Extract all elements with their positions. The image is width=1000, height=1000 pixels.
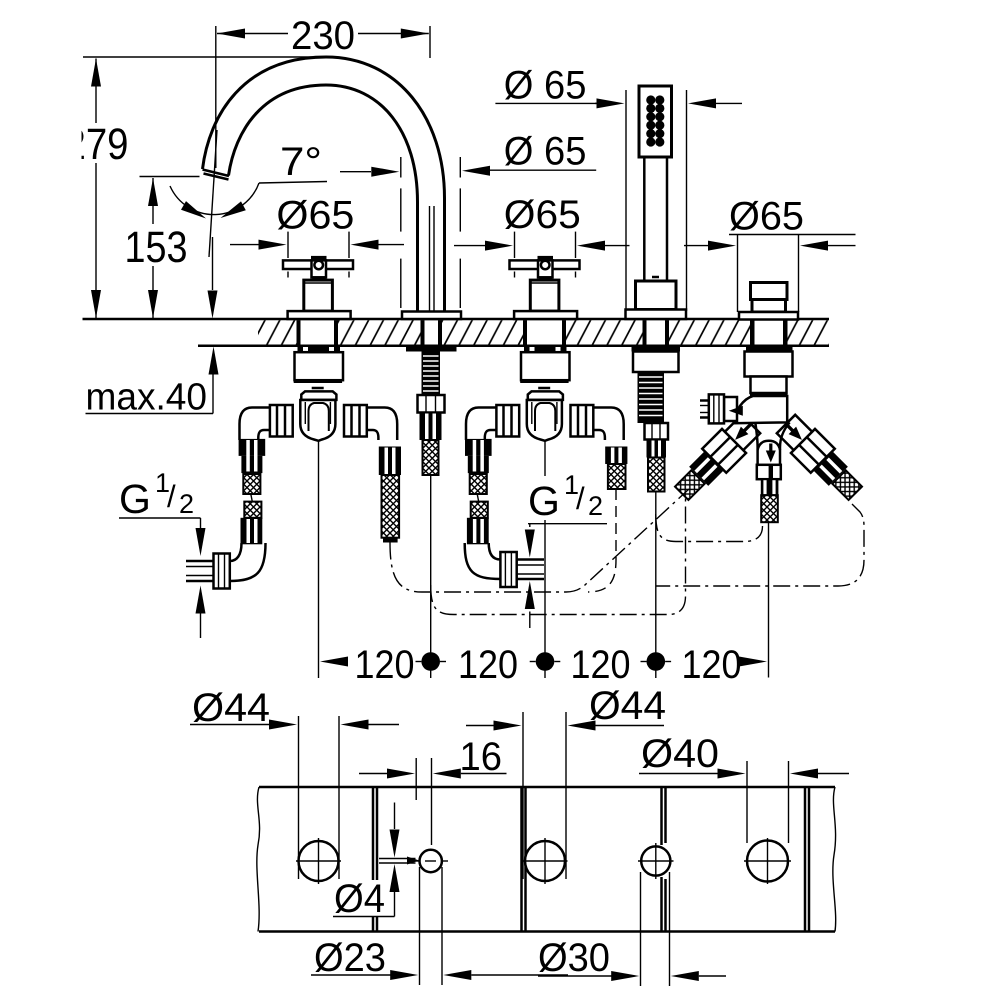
station4 handshower below-deck (632, 346, 681, 492)
station3 left union nut (496, 405, 519, 437)
dimension D65 spout escutcheon (340, 130, 596, 309)
hose route R1 dash-dot (390, 489, 689, 592)
label G half no2 (525, 470, 607, 628)
svg-text:/: / (576, 481, 585, 516)
handle H1 (283, 232, 353, 319)
svg-text:Ø40: Ø40 (641, 732, 719, 776)
station3 right elbow (593, 408, 623, 441)
dimension D40 (639, 732, 849, 843)
station1 right union nut (344, 405, 367, 437)
spout riser inner lines (430, 206, 435, 311)
handle H2 (510, 232, 580, 319)
diverter left branch (670, 412, 763, 505)
7 degree arc (170, 183, 259, 215)
station1 left hose (239, 439, 266, 544)
svg-text:Ø23: Ø23 (314, 936, 386, 980)
dimension max.40 (86, 347, 219, 419)
diverter Y body (734, 396, 788, 423)
svg-text:G: G (528, 478, 560, 524)
hole C5 d40 (744, 838, 791, 884)
deck side-view bottom line (198, 344, 829, 347)
svg-text:Ø65: Ø65 (504, 193, 581, 237)
deck strip outline (257, 787, 836, 932)
hole C2 d23 (413, 850, 448, 872)
station1 below-deck valve body (294, 346, 343, 441)
svg-text:/: / (167, 479, 176, 514)
label G half no1 (119, 468, 206, 638)
station3 left hose (465, 439, 492, 544)
dimension D65 diverter (684, 195, 856, 313)
hose route R2 dashed drop (588, 489, 616, 592)
svg-text:120: 120 (355, 643, 415, 687)
station3 right hose (605, 447, 627, 490)
G-half thread tube2 (517, 560, 544, 580)
station1 right hose (379, 447, 401, 543)
deck side-view top line (83, 318, 830, 321)
svg-text:Ø 65: Ø 65 (504, 64, 587, 108)
hose route R4 dash-dot (656, 514, 763, 542)
svg-text:Ø 65: Ø 65 (504, 130, 587, 174)
dimension D65 handshower (495, 64, 742, 312)
dimension D65 handle2 (454, 193, 630, 251)
station1 left union nut (270, 405, 293, 437)
station3 below-deck valve body (520, 346, 569, 441)
svg-text:16: 16 (460, 735, 503, 779)
spout mouth (203, 170, 230, 180)
station centerlines to 120 row (319, 441, 769, 678)
dimension row 120 (320, 643, 767, 687)
plate joint lines (373, 787, 809, 932)
dimension 16 (359, 735, 507, 845)
dimension D65 handle1 (230, 194, 404, 250)
deck shank wall bars (297, 320, 788, 344)
station5 diverter below-deck (745, 346, 793, 396)
spout base plate (402, 312, 461, 320)
svg-text:120: 120 (458, 643, 518, 687)
spout outer curve (203, 57, 445, 312)
svg-text:230: 230 (291, 14, 355, 58)
svg-text:Ø65: Ø65 (729, 195, 804, 239)
max40 upper arrow line (212, 237, 214, 290)
deck hatch segments (258, 320, 829, 344)
svg-text:2: 2 (588, 491, 603, 521)
station3 G-half elbow to union (465, 543, 501, 579)
diverter knob (739, 283, 798, 320)
hose route R3 dash-dot (431, 497, 686, 615)
svg-text:2: 2 (179, 489, 194, 519)
svg-text:Ø4: Ø4 (334, 877, 385, 921)
spout inner curve (229, 85, 418, 312)
svg-text:Ø44: Ø44 (589, 684, 666, 728)
dimension D4 pin (331, 803, 419, 922)
diverter left port hex (700, 394, 743, 423)
svg-text:Ø65: Ø65 (276, 194, 354, 238)
svg-text:120: 120 (682, 643, 742, 687)
svg-text:Ø30: Ø30 (538, 936, 610, 980)
handshower wand (626, 86, 687, 319)
G-half union hex2 (500, 552, 516, 587)
dimension 279 (65, 57, 330, 318)
station1 G-half elbow to union (230, 543, 266, 581)
diverter crotch and center outlet (755, 422, 789, 522)
svg-text:Ø44: Ø44 (192, 686, 270, 730)
dimension 230 (216, 14, 430, 168)
dimension 153 (121, 177, 200, 319)
G-half thread tube (186, 561, 214, 581)
svg-text:120: 120 (571, 643, 631, 687)
dimension D23 (311, 867, 568, 985)
diverter right branch (774, 412, 867, 505)
station3 right union nut (571, 405, 594, 437)
hole C3 d44 (523, 838, 568, 884)
7 degree tilted line (209, 130, 217, 257)
station1 right elbow (367, 408, 397, 441)
hose route R5 dash-dot (656, 504, 864, 586)
station2 spout below-deck (406, 346, 457, 475)
station3 left elbow (466, 408, 496, 441)
svg-text:max.40: max.40 (86, 377, 208, 419)
G-half union hex (214, 554, 230, 589)
dimension D30 (538, 872, 726, 986)
hole C1 d44 (296, 838, 341, 884)
7 degree arc arrowheads (181, 201, 206, 218)
dimension D44 left (190, 686, 399, 879)
svg-text:153: 153 (125, 223, 188, 272)
7 degree label line (259, 182, 327, 184)
svg-text:7°: 7° (280, 140, 322, 184)
hole C4 d30 (638, 843, 674, 879)
dimension D44 right (466, 684, 666, 879)
station1 left elbow (240, 408, 270, 441)
svg-text:G: G (119, 476, 151, 522)
